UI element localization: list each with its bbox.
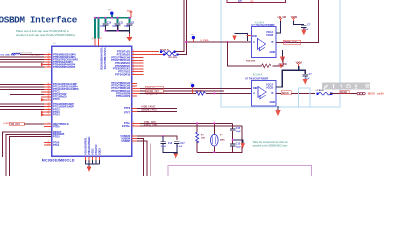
svg-text:PTB5/KBIP5/ADP5: PTB5/KBIP5/ADP5 (53, 65, 76, 69)
wire cap ground bus (106, 25, 130, 34)
svg-text:20: 20 (48, 111, 50, 113)
wire RESET to bottom-left (3, 132, 52, 157)
svg-text:BKGD_TG: BKGD_TG (147, 94, 158, 96)
svg-text:39: 39 (48, 65, 50, 67)
pin stub DIR U2 (247, 35, 252, 37)
resistor box top right (227, 0, 285, 3)
svg-text:FB?-BLM: FB?-BLM (169, 57, 178, 59)
svg-text:22pF: 22pF (236, 131, 241, 133)
svg-text:B: B (272, 40, 274, 44)
wire VDDB navy elbows (276, 21, 281, 33)
svg-text:EXTAL_CPU: EXTAL_CPU (144, 124, 158, 127)
cap C11 branch (117, 18, 119, 23)
crystal circuit loop (197, 123, 242, 152)
wire U2 out to riser (276, 0, 318, 42)
ground arrow usb caps (173, 153, 178, 159)
wire BKGD_TGT row (132, 90, 225, 92)
wire BKGD to pads (330, 92, 357, 94)
svg-text:PTG5: PTG5 (53, 134, 60, 138)
svg-text:19: 19 (48, 108, 50, 110)
svg-text:PTD0: PTD0 (53, 125, 60, 129)
IC bottom pin names (rotated) (83, 136, 101, 155)
resistor R12 10M (196, 132, 199, 143)
crystal Y1 4MHz (213, 123, 215, 152)
pin stubs PTG0 PTG1 (44, 143, 52, 146)
svg-text:B 3.3V A: B 3.3V A (253, 74, 263, 77)
svg-text:C15: C15 (236, 128, 241, 130)
svg-text:18: 18 (48, 105, 50, 107)
svg-text:A: A (253, 40, 255, 44)
svg-text:Y?: Y? (220, 135, 223, 137)
svg-text:VDDAD/VREFH: VDDAD/VREFH (87, 136, 91, 155)
svg-text:DIR: DIR (253, 86, 258, 90)
wire row1 riser (176, 0, 184, 52)
capacitor C14 (160, 136, 174, 153)
wire BKGD/MS to bottom-left (6, 134, 52, 176)
svg-text:C10: C10 (107, 23, 112, 25)
svg-text:U_PWD: U_PWD (201, 40, 209, 42)
svg-text:4MHz: 4MHz (220, 139, 225, 142)
IC top pin stubs (95, 39, 99, 47)
wire USB_FAULT row (132, 107, 138, 109)
wires left group2 (0, 85, 44, 95)
connector pads J1 (357, 92, 365, 95)
svg-text:9: 9 (133, 50, 134, 52)
svg-text:3: 3 (133, 67, 134, 69)
svg-text:3V3_USB_VDD: 3V3_USB_VDD (0, 55, 15, 57)
svg-text:Place the components as close: Place the components as close as (253, 141, 289, 144)
pin stub row 126.6 (44, 126, 52, 128)
wire TXD_IN row (132, 87, 252, 89)
svg-text:22pF: 22pF (236, 147, 241, 149)
wire teal VSS branch (98, 18, 100, 39)
node CONN_TXD boxed label (283, 40, 301, 44)
resistor R14 DNP loop (228, 42, 284, 66)
svg-text:EXTAL: EXTAL (122, 124, 131, 128)
wire USBDN down (132, 139, 144, 177)
ground arrow IC bottom (87, 167, 92, 173)
svg-text:L?-BLM: L?-BLM (316, 90, 324, 92)
wire teal VDD bus (95, 18, 131, 39)
svg-text:1: 1 (133, 73, 134, 75)
ground arrow C9 (301, 30, 306, 36)
svg-text:SW_RST: SW_RST (11, 124, 21, 126)
capacitor C10 (103, 23, 109, 25)
svg-text:VSSA/VREFL/VSS: VSSA/VREFL/VSS (103, 48, 107, 70)
ground arrow for cap bank (129, 34, 131, 38)
wire row2 riser (179, 0, 187, 55)
svg-text:6: 6 (133, 125, 134, 127)
svg-text:8: 8 (133, 53, 134, 55)
IC U1 MC9S08JM60CLD body (52, 46, 132, 156)
svg-text:PTC6: PTC6 (53, 97, 60, 101)
IC left pin group 1 names (53, 52, 78, 69)
svg-text:MC9S08JM60CLD: MC9S08JM60CLD (42, 159, 75, 163)
toolbar overlay (322, 82, 370, 89)
ground U2 (282, 50, 284, 57)
svg-text:41: 41 (100, 38, 102, 40)
svg-text:7: 7 (133, 56, 134, 58)
svg-text:PTD1/ADP9: PTD1/ADP9 (116, 94, 131, 98)
junction dots crystal (196, 122, 233, 153)
node BKGD boxed label 2 (340, 91, 350, 94)
capacitor C15 (230, 129, 236, 131)
capacitor C7 (302, 74, 308, 79)
wire XTAL row (132, 122, 233, 124)
svg-text:CONN_TXD: CONN_TXD (284, 42, 297, 44)
svg-text:XTAL_CPU: XTAL_CPU (144, 121, 156, 124)
ground elbow crystal (233, 140, 243, 143)
wire EXTAL row (132, 126, 242, 152)
svg-text:USBDM_FAULT: USBDM_FAULT (141, 109, 158, 112)
capacitor C8 (127, 23, 133, 25)
svg-text:pin36: pin36 (377, 93, 384, 96)
svg-text:BKGD: BKGD (282, 93, 289, 95)
svg-text:13: 13 (85, 160, 87, 162)
svg-text:5: 5 (133, 122, 134, 124)
svg-text:16: 16 (92, 38, 94, 40)
svg-text:VCCB: VCCB (266, 33, 273, 37)
svg-text:USBDP: USBDP (121, 139, 130, 143)
svg-text:+USB_FAULT: +USB_FAULT (141, 106, 156, 109)
IC left pin group 2 names (53, 82, 79, 101)
pin stub row 95.9 (132, 95, 138, 97)
svg-text:5: 5 (133, 62, 134, 64)
wire U3 out BKGD (276, 92, 315, 94)
svg-text:VSSOSC: VSSOSC (94, 144, 98, 155)
IC right pin names (111, 50, 131, 143)
pin stubs right rows 83/86 (132, 83, 138, 86)
svg-text:R14 DNP: R14 DNP (246, 60, 256, 63)
IC right group1 pin stubs (132, 52, 167, 75)
node GND-bus highlight box (221, 0, 340, 107)
svg-text:TP4: TP4 (108, 10, 113, 12)
cap C8 branch (129, 18, 131, 23)
wire USBDP down (132, 141, 147, 176)
wires left group3 (0, 104, 44, 109)
svg-text:PTA1: PTA1 (53, 143, 60, 147)
svg-text:C13: C13 (236, 144, 241, 146)
svg-text:GND: GND (270, 100, 276, 104)
svg-text:VDD2: VDD2 (97, 148, 101, 155)
svg-text:VSS1: VSS1 (90, 148, 94, 155)
capacitor C11 (115, 23, 121, 25)
wires left group1 (0, 55, 44, 68)
pin stubs left group1 (42, 55, 52, 68)
node lower sheet box (168, 166, 312, 182)
svg-text:BKGD: BKGD (368, 93, 375, 96)
svg-text:PTG4: PTG4 (53, 113, 60, 117)
svg-text:U?: U? (53, 43, 57, 45)
wire third usb trace (149, 144, 151, 177)
svg-text:4: 4 (133, 64, 134, 66)
svg-text:PTF7: PTF7 (124, 111, 131, 115)
svg-text:VCCB: VCCB (266, 85, 273, 89)
IC left pin group 3 names (53, 102, 74, 147)
svg-text:17: 17 (48, 102, 50, 104)
svg-text:possible to the OSBDM MCU pins: possible to the OSBDM MCU pins (253, 144, 288, 147)
svg-text:C?: C? (307, 25, 311, 27)
node gnd highlight small box (298, 88, 310, 107)
wire U_PWD to LS1 (186, 41, 251, 43)
svg-text:2: 2 (133, 70, 134, 72)
svg-text:PTF6: PTF6 (124, 106, 131, 110)
svg-text:21: 21 (48, 123, 50, 125)
svg-text:GND: GND (270, 50, 276, 54)
svg-text:A: A (253, 91, 255, 95)
svg-text:B: B (272, 91, 274, 95)
svg-text:C?: C? (309, 74, 313, 76)
svg-text:0.1uF: 0.1uF (161, 146, 167, 148)
svg-text:6: 6 (133, 59, 134, 61)
svg-text:11: 11 (48, 113, 50, 115)
ground arrow C7 (303, 79, 308, 85)
capacitor C9 (301, 26, 307, 30)
wire BKGD main row (132, 92, 197, 94)
svg-text:PTF0/ADP10: PTF0/ADP10 (115, 72, 131, 76)
svg-text:R?: R? (201, 134, 204, 136)
wire VDDA navy elbows (276, 66, 299, 87)
svg-text:C8: C8 (131, 23, 135, 25)
svg-text:0.1uF: 0.1uF (177, 146, 183, 148)
junction dots on teal bus (94, 17, 131, 32)
svg-text:DIR: DIR (252, 34, 257, 38)
svg-text:C17: C17 (180, 143, 185, 145)
svg-text:46: 46 (48, 98, 50, 100)
capacitor C13 (230, 144, 236, 146)
wire VUSB33 row (132, 136, 177, 140)
svg-text:10M: 10M (201, 137, 205, 139)
svg-text:14: 14 (88, 160, 90, 162)
IC bottom pin stubs (86, 156, 100, 160)
svg-text:C11: C11 (119, 23, 124, 25)
svg-text:+3V_SW: +3V_SW (278, 64, 288, 66)
svg-text:another 0.1uF cap near Pin41(V: another 0.1uF cap near Pin41(VSSAD/VREFL… (16, 33, 75, 37)
offpage arrow to wire (235, 34, 248, 42)
svg-text:VSSAD/VREFL: VSSAD/VREFL (83, 137, 87, 155)
cap C10 branch (105, 18, 107, 23)
svg-text:C14: C14 (168, 142, 173, 145)
svg-text:BKGD: BKGD (341, 92, 348, 94)
capacitor C17 (174, 142, 180, 153)
svg-text:OSBDM Interface: OSBDM Interface (0, 15, 78, 26)
node BKGD boxed label (281, 91, 291, 95)
wire USBDM_FAULT row (132, 110, 138, 112)
wire PTG5 to bottom-left (9, 137, 51, 176)
svg-text:23: 23 (48, 144, 50, 146)
ground U3 (277, 106, 279, 111)
